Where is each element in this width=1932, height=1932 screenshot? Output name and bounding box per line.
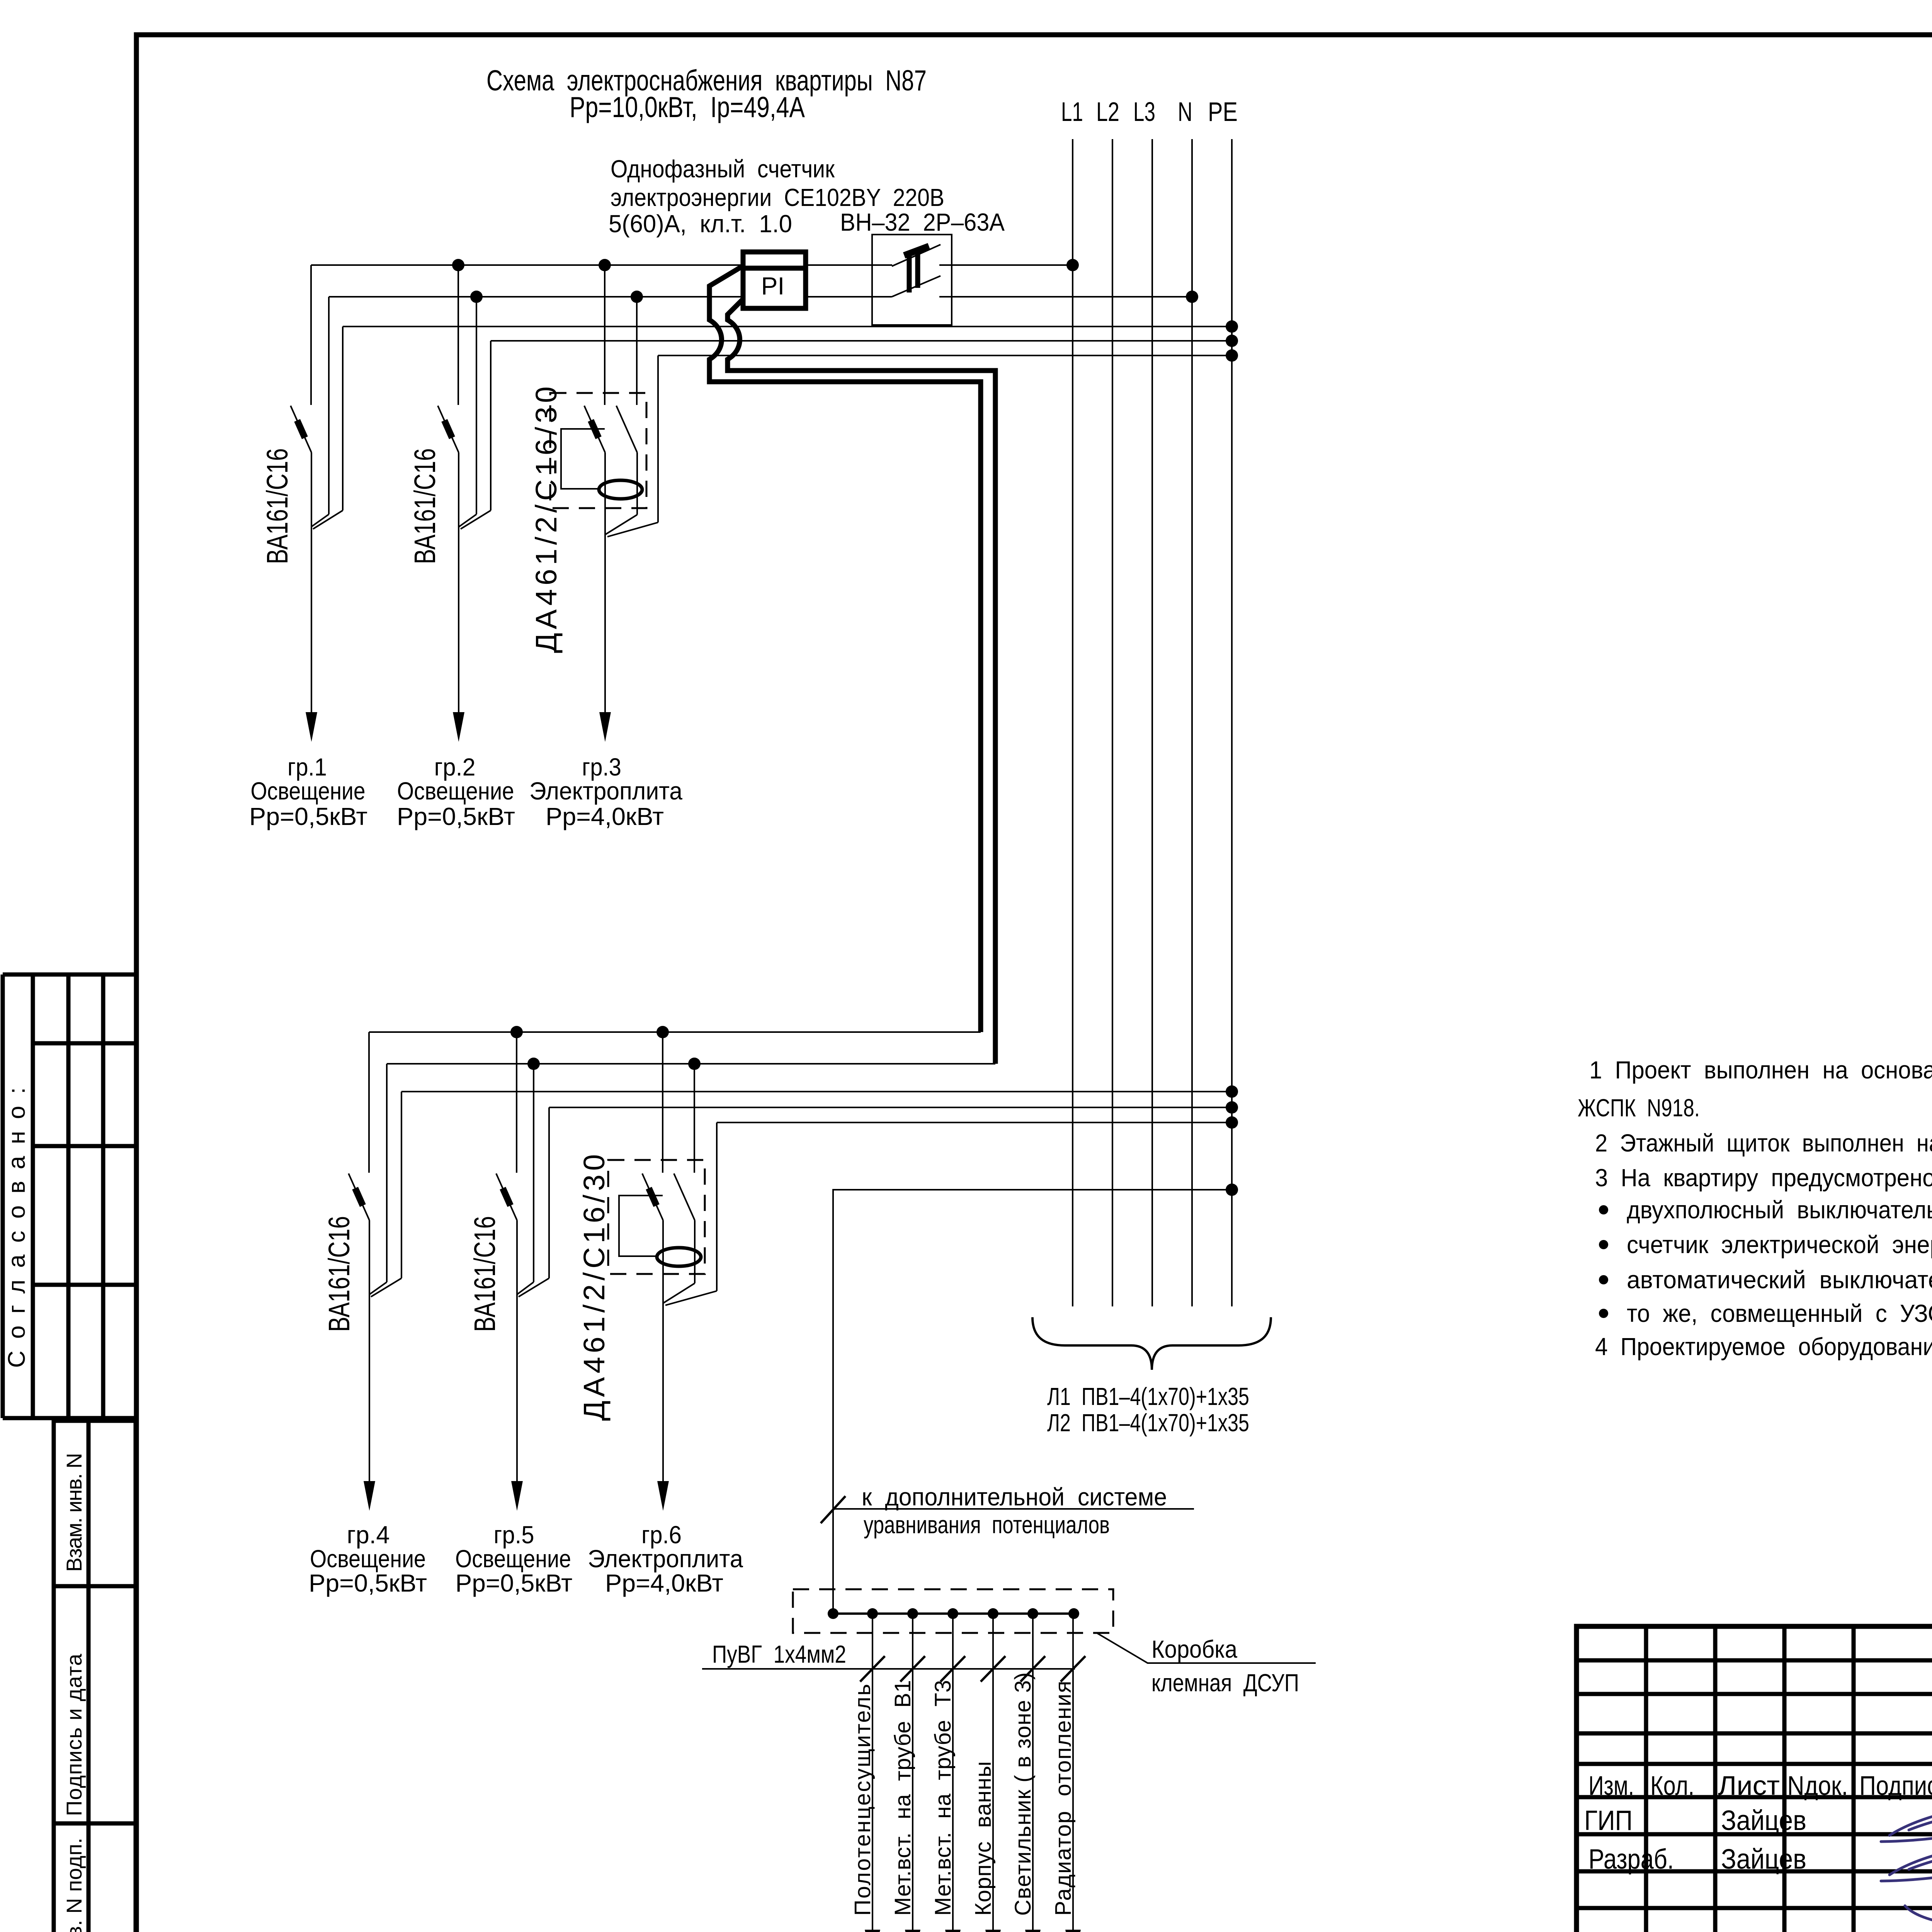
group 5 arrow head xyxy=(511,1481,523,1511)
title block row line 8 xyxy=(1577,1906,1932,1910)
signature Nkontr xyxy=(1873,1912,1932,1932)
breaker gr.2 thermal tick xyxy=(444,420,452,438)
DSUP bar dot 4 xyxy=(947,1608,958,1619)
breaker gr.5 thermal tick xyxy=(503,1188,510,1206)
breaker gr.4 blade xyxy=(349,1173,369,1220)
breaker gr.1 PE merge diagonal xyxy=(313,510,343,529)
svg-text:Мет.вст. на трубе Т3: Мет.вст. на трубе Т3 xyxy=(930,1680,956,1916)
group 4 arrow head xyxy=(364,1481,375,1511)
DSUP conductor 5 arrow head xyxy=(1025,1930,1041,1932)
signature GIP xyxy=(1881,1804,1932,1842)
svg-text:Освещение: Освещение xyxy=(310,1545,426,1573)
group 3 arrow head xyxy=(599,712,611,742)
breaker gr.5 N drop xyxy=(533,1064,534,1282)
svg-text:Л2 ПВ1–4(1х70)+1х35: Л2 ПВ1–4(1х70)+1х35 xyxy=(1047,1409,1249,1437)
breaker gr.2 N drop xyxy=(476,297,477,514)
DSUP bar dot 2 xyxy=(867,1608,878,1619)
wire E PE of breaker gr.6 xyxy=(717,1122,1232,1123)
svg-text:4 Проектируемое оборудование: 4 Проектируемое оборудование показано ут… xyxy=(1595,1333,1932,1361)
svg-text:Электроплита: Электроплита xyxy=(588,1545,743,1573)
svg-text:3 На квартиру предусмотрено: 3 На квартиру предусмотрено: xyxy=(1595,1164,1932,1192)
svg-text:N: N xyxy=(1178,97,1192,127)
DSUP conductor 4 arrow head xyxy=(985,1930,1001,1932)
svg-text:1 Проект выполнен на основ: 1 Проект выполнен на основании Техническ… xyxy=(1589,1056,1932,1084)
group 1 arrow head xyxy=(306,712,317,742)
RCBO DA461/2/C16/30 gr.3 dashed box xyxy=(550,393,646,508)
group 4 cable down xyxy=(369,1294,370,1482)
breaker gr.2 N merge diagonal xyxy=(459,514,476,527)
RCBO gr.6 N merge diagonal xyxy=(663,1283,695,1303)
svg-text:Рр=0,5кВт: Рр=0,5кВт xyxy=(397,803,515,830)
title block row line 5 xyxy=(1577,1795,1932,1799)
svg-text:ЖСПК N918.: ЖСПК N918. xyxy=(1578,1094,1700,1122)
svg-text:Подпись и дата: Подпись и дата xyxy=(62,1653,86,1816)
bus line L1 xyxy=(1072,139,1073,1306)
RCBO gr.6 toroid ellipse xyxy=(657,1248,701,1266)
left margin block Vzam inv N xyxy=(54,1421,136,1586)
DSUP bar dot 1 xyxy=(828,1608,838,1619)
brace under riser xyxy=(1032,1317,1271,1370)
DSUP conductor 6 slash xyxy=(1061,1656,1085,1682)
svg-text:уравнивания потенциалов: уравнивания потенциалов xyxy=(864,1511,1110,1539)
svg-text:PI: PI xyxy=(761,272,784,300)
PE riser to DSUP box xyxy=(833,1190,1232,1614)
title block row line 3 xyxy=(1577,1731,1932,1736)
svg-text:Взам. инв. N: Взам. инв. N xyxy=(62,1453,86,1572)
RCBO gr.3 N lower wire xyxy=(636,452,638,515)
svg-text:Рр=10,0кВт, Iр=49,4А: Рр=10,0кВт, Iр=49,4А xyxy=(570,91,805,123)
breaker gr.5 blade xyxy=(496,1173,517,1220)
signature Razrab xyxy=(1881,1843,1932,1925)
svg-text:Полотенцесущитель: Полотенцесущитель xyxy=(850,1684,875,1916)
RCBO gr.6 thermal tick xyxy=(649,1188,656,1206)
DSUP conductor 2 line xyxy=(912,1614,913,1930)
Korobka leader xyxy=(1097,1633,1316,1663)
breaker VA161/C16 gr.2 phase drop xyxy=(457,265,459,405)
junction dot wire2/branch br3 xyxy=(631,291,643,303)
junction dot wire5 at PE xyxy=(1226,349,1238,362)
group 3 cable down xyxy=(604,534,606,713)
RCBO gr.6 PE drop xyxy=(716,1122,718,1291)
wire B neutral feed second panel xyxy=(387,1063,995,1065)
DSUP conductor 5 line xyxy=(1032,1614,1034,1930)
junction dot wireA/br6 xyxy=(656,1026,669,1038)
svg-text:ПуВГ 1х4мм2: ПуВГ 1х4мм2 xyxy=(712,1640,846,1668)
junction dot wireB/br6 xyxy=(688,1058,701,1070)
RCBO gr.3 toroid ellipse xyxy=(599,480,642,499)
breaker gr.4 N merge diagonal xyxy=(369,1282,387,1294)
wire 2 neutral feed (N) segments xyxy=(329,296,743,298)
svg-text:Рр=0,5кВт: Рр=0,5кВт xyxy=(309,1569,427,1597)
meter PI divider xyxy=(743,266,806,271)
left margin approval table (Soglasovano block) xyxy=(3,973,136,977)
svg-text:ВА161/С16: ВА161/С16 xyxy=(468,1216,502,1332)
RCBO gr.3 PE merge diagonal xyxy=(607,522,658,537)
RCBO gr.3 PE drop xyxy=(657,355,659,522)
DSUP terminal box dashed xyxy=(793,1589,1113,1633)
leader underline text k dopolnitelnoy xyxy=(834,1508,1194,1510)
breaker VA161/C16 gr.1 phase drop xyxy=(310,265,312,405)
svg-text:Мет.вст. на трубе В1: Мет.вст. на трубе В1 xyxy=(890,1680,915,1916)
svg-text:Подпись: Подпись xyxy=(1859,1770,1932,1801)
wire 5 PE of breaker gr.3 xyxy=(658,355,1232,356)
group 6 arrow head xyxy=(657,1481,669,1511)
svg-text:ВА161/С16: ВА161/С16 xyxy=(323,1216,356,1332)
title block row line 1 xyxy=(1577,1658,1932,1663)
svg-text:Рр=4,0кВт: Рр=4,0кВт xyxy=(605,1569,723,1597)
junction dot wire2/branch br2 xyxy=(470,291,483,303)
notes bullet 3 xyxy=(1599,1275,1608,1284)
breaker VA161/C16 gr.4 phase drop xyxy=(368,1032,370,1173)
svg-text:Изм.: Изм. xyxy=(1588,1770,1634,1801)
svg-text:Рр=0,5кВт: Рр=0,5кВт xyxy=(249,803,367,830)
PuVG leader line xyxy=(702,1668,1075,1670)
RCBO gr.6 trip unit box xyxy=(619,1196,663,1256)
DSUP conductor 5 slash xyxy=(1020,1656,1045,1682)
junction dot wireB/br5 xyxy=(527,1058,540,1070)
junction dot wire3 at PE xyxy=(1226,320,1238,333)
wire D PE of breaker gr.5 xyxy=(549,1107,1232,1108)
svg-text:PE: PE xyxy=(1208,97,1238,127)
junction dot wire2 at N xyxy=(1186,291,1198,303)
DSUP conductor 3 line xyxy=(952,1614,954,1930)
svg-text:Однофазный счетчик: Однофазный счетчик xyxy=(611,155,835,183)
breaker gr.5 PE merge diagonal xyxy=(519,1278,549,1297)
svg-text:5(60)А, кл.т. 1.0: 5(60)А, кл.т. 1.0 xyxy=(609,210,792,238)
switch link bar 2 xyxy=(915,248,920,288)
title block row line 7 xyxy=(1577,1869,1932,1874)
svg-text:Освещение: Освещение xyxy=(397,777,514,805)
title block row line 2 xyxy=(1577,1692,1932,1696)
RCBO gr.6 phase lower wire xyxy=(662,1220,664,1303)
DSUP conductor 3 slash xyxy=(940,1656,965,1682)
DSUP bar dot 7 xyxy=(1068,1608,1079,1619)
RCBO gr.3 thermal tick xyxy=(591,420,599,438)
breaker gr.1 lower wire xyxy=(311,452,312,528)
group 2 cable down xyxy=(458,527,459,713)
svg-text:2 Этажный щиток выполнен н: 2 Этажный щиток выполнен на базе щитков … xyxy=(1595,1129,1932,1157)
RCBO gr.3 phase drop xyxy=(604,265,605,405)
svg-text:Радиатор отопления: Радиатор отопления xyxy=(1051,1681,1076,1916)
RCBO gr.6 PE merge diagonal xyxy=(665,1291,717,1305)
switch handle tick xyxy=(904,246,929,255)
svg-text:Зайцев: Зайцев xyxy=(1721,1805,1806,1836)
svg-text:Лист: Лист xyxy=(1718,1770,1780,1801)
junction dot wireC at PE xyxy=(1226,1085,1238,1098)
junction dot wireA/br5 xyxy=(510,1026,523,1038)
DSUP bus bar xyxy=(833,1612,1074,1615)
wire 1 phase feed (L) segments xyxy=(311,264,743,266)
RCBO gr.3 trip unit box xyxy=(561,429,605,489)
group 5 cable down xyxy=(516,1294,518,1482)
notes bullet 4 xyxy=(1599,1309,1608,1318)
breaker gr.4 PE merge diagonal xyxy=(371,1278,401,1297)
svg-text:ВН–32 2Р–63А: ВН–32 2Р–63А xyxy=(840,208,1005,236)
breaker gr.5 lower wire xyxy=(516,1220,518,1296)
left margin block Inv N podl xyxy=(54,1823,136,1932)
notes bullet 1 xyxy=(1599,1205,1608,1214)
svg-text:ГИП: ГИП xyxy=(1584,1805,1633,1836)
thick cable phase from meter down to second panel xyxy=(709,266,981,1032)
RCBO DA461/2/C16/30 gr.6 dashed box xyxy=(608,1160,705,1274)
DSUP conductor 6 line xyxy=(1072,1614,1074,1930)
title block column Kol xyxy=(1713,1626,1718,1932)
svg-text:L2: L2 xyxy=(1096,97,1119,127)
notes bullet 2 xyxy=(1599,1240,1608,1249)
RCBO gr.6 N blade xyxy=(674,1173,695,1220)
switch blade pole 2 xyxy=(892,276,940,297)
svg-text:Кол.: Кол. xyxy=(1650,1770,1694,1801)
RCBO gr.6 N lower wire xyxy=(694,1220,696,1283)
breaker gr.5 PE drop xyxy=(548,1107,550,1278)
breaker gr.2 PE drop xyxy=(490,341,492,510)
switch blade pole 1 xyxy=(892,245,940,266)
breaker gr.4 N drop xyxy=(386,1064,388,1282)
DSUP conductor 6 arrow head xyxy=(1065,1930,1081,1932)
wire C PE of breaker gr.4 xyxy=(401,1091,1232,1092)
svg-text:клемная ДСУП: клемная ДСУП xyxy=(1151,1669,1299,1697)
RCBO gr.3 N merge diagonal xyxy=(605,515,637,534)
breaker gr.4 PE drop xyxy=(401,1092,402,1278)
title block outer border xyxy=(1577,1626,1932,1932)
svg-text:Корпус ванны: Корпус ванны xyxy=(971,1761,996,1916)
junction dot wire4 at PE xyxy=(1226,335,1238,347)
RCBO gr.3 phase blade xyxy=(584,406,605,452)
DSUP conductor 4 line xyxy=(992,1614,994,1930)
RCBO gr.6 N drop xyxy=(694,1064,695,1173)
DSUP conductor 2 arrow head xyxy=(905,1930,920,1932)
leader slash on riser xyxy=(821,1496,845,1523)
breaker gr.1 thermal tick xyxy=(297,420,305,438)
DSUP bar dot 3 xyxy=(907,1608,918,1619)
RCBO gr.6 phase blade xyxy=(642,1173,663,1220)
title block row line 4 xyxy=(1577,1762,1932,1766)
wire 3 PE of breaker gr.1 xyxy=(343,326,1232,327)
junction dot wire1/branch br3 xyxy=(599,259,611,271)
title block column Ndok xyxy=(1852,1626,1856,1932)
svg-text:Рр=4,0кВт: Рр=4,0кВт xyxy=(546,803,664,830)
DSUP conductor 4 slash xyxy=(981,1656,1005,1682)
svg-text:Коробка: Коробка xyxy=(1151,1635,1237,1663)
RCBO gr.3 N blade xyxy=(616,406,637,452)
breaker gr.5 N merge diagonal xyxy=(517,1282,534,1294)
wire 4 PE of breaker gr.2 xyxy=(491,340,1232,342)
DSUP conductor 1 line xyxy=(872,1614,873,1930)
breaker gr.2 PE merge diagonal xyxy=(461,510,491,529)
junction dot riser at PE xyxy=(1226,1184,1238,1196)
svg-text:Л1 ПВ1–4(1х70)+1х35: Л1 ПВ1–4(1х70)+1х35 xyxy=(1047,1383,1249,1410)
breaker gr.1 PE drop xyxy=(342,327,344,510)
breaker gr.1 N merge diagonal xyxy=(311,514,329,527)
wire A phase feed second panel xyxy=(369,1031,981,1033)
DSUP bar dot 5 xyxy=(988,1608,998,1619)
bus line PE xyxy=(1231,139,1233,1306)
DSUP conductor 2 slash xyxy=(900,1656,925,1682)
DSUP conductor 3 arrow head xyxy=(945,1930,961,1932)
thick cable neutral from meter down to second panel xyxy=(728,299,995,1064)
breaker VA161/C16 gr.5 phase drop xyxy=(516,1032,517,1173)
breaker gr.4 thermal tick xyxy=(355,1188,363,1206)
group 2 arrow head xyxy=(453,712,464,742)
svg-text:к дополнительной системе: к дополнительной системе xyxy=(862,1483,1167,1511)
switch link bar 1 xyxy=(907,253,912,293)
bus line N xyxy=(1191,139,1193,1306)
RCBO gr.6 phase drop xyxy=(662,1032,663,1173)
breaker gr.1 blade xyxy=(291,406,311,452)
RCBO gr.3 phase lower wire xyxy=(604,452,606,534)
DSUP bar dot 6 xyxy=(1027,1608,1038,1619)
breaker gr.2 lower wire xyxy=(458,452,459,528)
breaker gr.4 lower wire xyxy=(369,1220,370,1296)
junction dot wireD at PE xyxy=(1226,1101,1238,1114)
svg-text:Рр=0,5кВт: Рр=0,5кВт xyxy=(456,1569,573,1597)
junction dot wire1/branch br2 xyxy=(452,259,464,271)
breaker gr.2 blade xyxy=(438,406,459,452)
breaker gr.1 N drop xyxy=(328,297,330,514)
svg-text:автоматический выключатель с: автоматический выключатель с Iр=16А – 4 … xyxy=(1627,1266,1932,1294)
svg-text:Освещение: Освещение xyxy=(251,777,366,805)
DSUP conductor 1 slash xyxy=(860,1656,885,1682)
bus line L2 xyxy=(1112,139,1113,1306)
svg-text:двухполюсный выключатель наг: двухполюсный выключатель нагрузки с Iр=6… xyxy=(1627,1196,1932,1224)
switch VN-32 box xyxy=(872,235,952,325)
svg-text:Разраб.: Разраб. xyxy=(1588,1844,1674,1875)
svg-text:Светильник ( в зоне 3): Светильник ( в зоне 3) xyxy=(1010,1672,1036,1916)
junction dot wire1 at L1 xyxy=(1066,259,1079,271)
svg-text:L1: L1 xyxy=(1061,97,1083,127)
svg-text:то же, совмещенный с УЗО–1: то же, совмещенный с УЗО–16/0,03А – 2 шт… xyxy=(1627,1299,1932,1327)
group 6 cable down xyxy=(662,1303,664,1482)
title block row line 6 xyxy=(1577,1832,1932,1837)
svg-text:L3: L3 xyxy=(1133,97,1155,127)
DSUP conductor 1 arrow head xyxy=(865,1930,880,1932)
RCBO gr.3 N drop xyxy=(636,297,638,405)
svg-text:Электроплита: Электроплита xyxy=(529,777,682,805)
junction dot wireE at PE xyxy=(1226,1116,1238,1129)
meter PI box xyxy=(743,252,806,308)
svg-text:Освещение: Освещение xyxy=(455,1545,571,1573)
svg-text:ВА161/С16: ВА161/С16 xyxy=(261,448,294,564)
svg-text:счетчик электрической энерги: счетчик электрической энергии СЕ102BY кл… xyxy=(1627,1231,1932,1259)
svg-text:ВА161/С16: ВА161/С16 xyxy=(408,448,442,564)
bus line L3 xyxy=(1151,139,1153,1306)
svg-text:Зайцев: Зайцев xyxy=(1721,1844,1806,1875)
left margin block Podpis i data xyxy=(54,1586,136,1823)
title block column List xyxy=(1782,1626,1787,1932)
svg-text:Nдок.: Nдок. xyxy=(1787,1770,1848,1801)
svg-text:Инв. N подп.: Инв. N подп. xyxy=(62,1838,86,1932)
title block column Izm xyxy=(1644,1626,1648,1932)
group 1 cable down xyxy=(311,527,312,713)
svg-text:электроэнергии СЕ102BY 220В: электроэнергии СЕ102BY 220В xyxy=(611,184,944,211)
